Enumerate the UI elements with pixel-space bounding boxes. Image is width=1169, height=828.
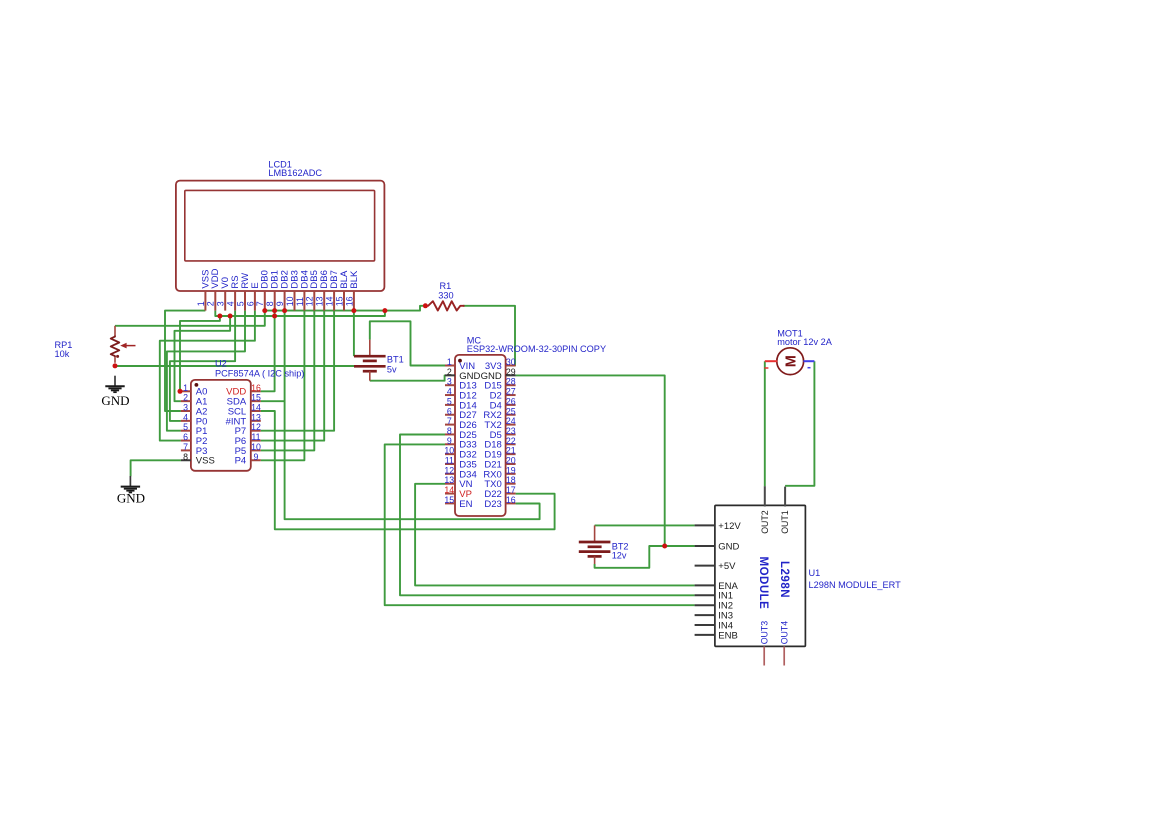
U2 pin 5 P1 stub — [181, 430, 191, 432]
MC pin 25 RX2 stub — [506, 414, 516, 416]
wire MC GND pin29 to GND net junction — [516, 375, 665, 546]
LCD1 pin 5 RW stub — [244, 291, 246, 311]
U2 pin 1 A0 stub — [181, 390, 191, 392]
svg-text:15: 15 — [444, 495, 454, 505]
svg-text:15: 15 — [251, 393, 261, 403]
svg-text:25: 25 — [506, 406, 516, 416]
wire U2 VSS to GND2 — [131, 460, 181, 476]
battery BT2 12v — [579, 525, 611, 564]
MC pin 29 GND stub — [506, 374, 516, 376]
U1 pin OUT2 stub — [764, 486, 766, 506]
junction RP1 bottom at (115.0,365.9) — [113, 363, 118, 368]
MC pin 3 D13 stub — [445, 384, 455, 386]
svg-text:1: 1 — [447, 357, 452, 367]
wire U2 P7 to LCD pin14 DB7 — [261, 311, 334, 431]
svg-text:11: 11 — [295, 297, 305, 306]
svg-text:U2: U2 — [215, 359, 227, 369]
svg-text:10: 10 — [285, 296, 295, 306]
wire MOT1 left to U1 OUT2 — [764, 361, 766, 486]
svg-text:16: 16 — [251, 383, 261, 393]
wire U2 P6 to LCD pin13 DB6 — [261, 311, 324, 441]
junction bus1 LCD pin8 at (274.6,310.6) — [272, 308, 277, 313]
junction bus2 VDD riser at (274.6,316.0) — [272, 314, 277, 319]
wire RP1 bottom GND rail to BT1 minus plate — [115, 365, 354, 367]
MC pin 21 D19 stub — [506, 453, 516, 455]
LCD1 pin 13 DB6 stub — [323, 291, 325, 311]
wire MC D33 to U1 IN2 — [385, 444, 695, 605]
U1 pin +5V stub — [695, 565, 715, 567]
junction bus2 A0 tap at (219.9,316.0) — [217, 314, 222, 319]
junction GND net BT2 at (664.7,546.0) — [662, 544, 667, 549]
svg-text:OUT3: OUT3 — [760, 621, 770, 645]
wire LCD pin1 VSS to U2 A2 — [165, 311, 205, 411]
wire BT1 minus to MC GND pin2 — [370, 375, 445, 380]
potentiometer RP1 10k — [111, 326, 120, 363]
U2 pin 10 P5 stub — [251, 449, 261, 451]
svg-text:GND: GND — [117, 491, 145, 506]
U2 pin 8 VSS stub — [181, 459, 191, 461]
LCD1 pin 3 V0 stub — [224, 291, 226, 311]
LCD1 pin 2 VDD stub — [214, 291, 216, 311]
svg-text:MODULE: MODULE — [757, 557, 769, 610]
U1 pin IN1 stub — [695, 594, 715, 596]
svg-text:M: M — [784, 355, 800, 367]
U1 pin +12V stub — [695, 524, 715, 526]
svg-text:8: 8 — [265, 301, 275, 306]
svg-text:5: 5 — [183, 422, 188, 432]
svg-text:9: 9 — [254, 452, 259, 462]
svg-text:16: 16 — [506, 495, 516, 505]
MC pin 24 TX2 stub — [506, 424, 516, 426]
junction bus1 bus2 riser at (384.9,310.6) — [382, 308, 387, 313]
LCD1 pin 10 DB3 stub — [294, 291, 296, 311]
MC pin 30 3V3 stub — [506, 365, 516, 367]
U1 pin IN4 stub — [695, 624, 715, 626]
LCD1 pin 15 BLA stub — [343, 291, 345, 311]
wire BT2 minus to U1 GND — [595, 546, 695, 568]
svg-text:5: 5 — [447, 396, 452, 406]
U2 pin 3 A2 stub — [181, 410, 191, 412]
svg-text:11: 11 — [445, 456, 454, 466]
U2 pin 9 P4 stub — [251, 459, 261, 461]
svg-text:3: 3 — [216, 301, 226, 306]
svg-text:OUT2: OUT2 — [760, 510, 770, 534]
svg-text:VSS: VSS — [196, 456, 215, 467]
junction bus2 A1 tap at (230.1,316.0) — [228, 314, 233, 319]
MC pin 4 D12 stub — [445, 394, 455, 396]
svg-text:6: 6 — [183, 432, 188, 442]
MC pin 5 D14 stub — [445, 404, 455, 406]
U1 pin OUT3 stub — [763, 646, 765, 665]
svg-text:330: 330 — [438, 291, 453, 301]
svg-text:OUT1: OUT1 — [780, 510, 790, 534]
svg-text:U1: U1 — [809, 568, 821, 578]
LCD1 pin 16 BLK stub — [353, 291, 355, 311]
svg-text:2: 2 — [206, 301, 216, 306]
U1 pin ENA stub — [695, 584, 715, 586]
svg-text:14: 14 — [444, 485, 454, 495]
svg-text:2: 2 — [447, 367, 452, 377]
svg-text:5: 5 — [235, 301, 245, 306]
RP1 wiper arrow — [120, 343, 135, 349]
svg-text:PCF8574A ( I2C ship): PCF8574A ( I2C ship) — [215, 369, 304, 379]
U2 pin 6 P2 stub — [181, 440, 191, 442]
svg-text:13: 13 — [315, 296, 325, 306]
MC pin 20 D21 stub — [506, 463, 516, 465]
U1 pin IN3 stub — [695, 614, 715, 616]
svg-text:+5V: +5V — [718, 561, 736, 572]
wire R1 to MC 3V3 pin30 — [463, 306, 515, 366]
svg-text:P4: P4 — [235, 456, 247, 467]
wire bus2 tap to U2 A0 — [180, 316, 220, 391]
MC pin 22 D18 stub — [506, 443, 516, 445]
svg-text:4: 4 — [183, 412, 188, 422]
wire U2 P5 to LCD pin12 DB5 — [261, 311, 315, 451]
U1 pin IN2 stub — [695, 604, 715, 606]
svg-text:OUT4: OUT4 — [780, 621, 790, 645]
MOT1 right terminal — [803, 361, 814, 368]
svg-text:1: 1 — [196, 301, 206, 306]
svg-text:BLK: BLK — [349, 270, 360, 289]
svg-text:3: 3 — [447, 377, 452, 387]
MC pin 1 VIN stub — [445, 365, 455, 367]
U2 pin 2 A1 stub — [181, 400, 191, 402]
wire U2 SCL to MC D22 — [261, 411, 555, 529]
svg-text:14: 14 — [251, 403, 261, 413]
svg-text:27: 27 — [506, 387, 516, 397]
MC pin 11 D35 stub — [445, 463, 455, 465]
svg-text:24: 24 — [506, 416, 516, 426]
U2 pin 14 SCL stub — [251, 410, 261, 412]
svg-text:L298N: L298N — [778, 561, 790, 598]
LCD display LCD1 LMB162ADC body — [176, 181, 385, 291]
ground symbol GND1 below RP1 — [105, 376, 124, 393]
svg-text:EN: EN — [459, 499, 472, 510]
wire MOT1 right to U1 OUT1 — [785, 361, 814, 486]
wire LCD pin5 RW to U2 P1 — [167, 311, 245, 431]
wire node A0 stub link — [179, 390, 182, 392]
svg-text:15: 15 — [334, 296, 344, 306]
MC pin 7 D26 stub — [445, 424, 455, 426]
svg-text:ENB: ENB — [718, 630, 738, 641]
MC pin 14 VP stub — [445, 493, 455, 495]
U1 pin ENB stub — [695, 634, 715, 636]
junction U2 A0 pin at (180.0,391.3) — [178, 389, 183, 394]
junction bus1 LCD pin9 at (284.6,310.6) — [282, 308, 287, 313]
svg-text:20: 20 — [506, 456, 516, 466]
MC pin 12 D34 stub — [445, 473, 455, 475]
LCD1 pin 14 DB7 stub — [333, 291, 335, 311]
wire LCD pin16 BLK drop to BT1 plus plate — [353, 311, 355, 357]
svg-text:1: 1 — [183, 383, 188, 393]
MC pin 23 D5 stub — [506, 433, 516, 435]
svg-text:R1: R1 — [440, 281, 452, 291]
svg-text:+12V: +12V — [718, 521, 741, 532]
LCD1 pin 1 VSS stub — [204, 291, 206, 311]
MC pin 19 RX0 stub — [506, 473, 516, 475]
svg-text:3: 3 — [183, 403, 188, 413]
U2 pin 7 P3 stub — [181, 449, 191, 451]
svg-text:6: 6 — [245, 301, 255, 306]
MC pin 2 GND stub — [445, 374, 455, 376]
MC pin 17 D22 stub — [506, 493, 516, 495]
MC pin 15 EN stub — [445, 502, 455, 504]
svg-text:13: 13 — [444, 475, 454, 485]
MC pin 10 D32 stub — [445, 453, 455, 455]
U1 pin GND stub — [695, 545, 715, 547]
svg-text:23: 23 — [506, 426, 516, 436]
junction bus1 LCD pin16 at (353.9,310.6) — [351, 308, 356, 313]
U2 pin 15 SDA stub — [251, 400, 261, 402]
svg-text:14: 14 — [325, 296, 335, 306]
U1 pin OUT4 stub — [783, 646, 785, 665]
wire LCD pin4 RS to U2 P0 — [170, 311, 235, 421]
U2 pin 11 P6 stub — [251, 440, 261, 442]
battery BT1 5v — [354, 340, 386, 381]
svg-text:BT1: BT1 — [387, 355, 404, 365]
U2 pin 13 #INT stub — [251, 420, 261, 422]
svg-text:12: 12 — [444, 465, 454, 475]
IC MC ESP32-WROOM-32-30PIN body — [455, 355, 506, 516]
LCD1 pin 8 DB1 stub — [274, 291, 276, 311]
svg-text:D23: D23 — [484, 499, 501, 510]
svg-text:16: 16 — [344, 296, 354, 306]
svg-text:9: 9 — [275, 301, 285, 306]
junction bus1 LCD pin7 at (264.8,310.6) — [262, 308, 267, 313]
wire LCD pin2 VDD bus2 to bus1 riser — [215, 311, 385, 316]
svg-text:9: 9 — [447, 436, 452, 446]
svg-text:10k: 10k — [55, 349, 70, 359]
svg-text:12v: 12v — [612, 550, 627, 560]
MC pin 28 D15 stub — [506, 384, 516, 386]
svg-text:18: 18 — [506, 475, 516, 485]
U1 pin OUT1 stub — [784, 487, 786, 507]
wire U1 +12V to BT2 plus — [595, 524, 695, 526]
svg-text:10: 10 — [444, 446, 454, 456]
resistor R1 330 — [425, 301, 464, 310]
LCD1 pin 4 RS stub — [234, 291, 236, 311]
svg-text:21: 21 — [506, 446, 516, 456]
MC pin 16 D23 stub — [506, 502, 516, 504]
MC pin 26 D4 stub — [506, 404, 516, 406]
wire LCD pin6 E to U2 P2 — [160, 311, 255, 441]
MOT1 left terminal — [764, 361, 777, 368]
wire U2 P4 to LCD pin11 DB4 — [261, 311, 305, 461]
MC pin 6 D27 stub — [445, 414, 455, 416]
LCD1 pin 7 DB0 stub — [264, 291, 266, 311]
svg-text:L298N MODULE_ERT: L298N MODULE_ERT — [809, 580, 902, 590]
svg-text:LMB162ADC: LMB162ADC — [268, 168, 322, 178]
wire MC VN to U1 ENA — [415, 484, 694, 586]
LCD1 pin 6 E stub — [254, 291, 256, 311]
motor MOT1 symbol — [777, 348, 804, 375]
wire BT1 plus to MC VIN — [370, 321, 445, 365]
svg-text:5v: 5v — [387, 364, 397, 374]
wire LCD pin9 / SDA to MC D23 — [285, 311, 540, 520]
svg-text:22: 22 — [506, 436, 516, 446]
U2 pin 4 P0 stub — [181, 420, 191, 422]
wire LCD pin7 to RP1 top — [115, 311, 265, 326]
svg-text:26: 26 — [506, 396, 516, 406]
ground symbol GND2 below U2 VSS — [121, 476, 140, 493]
svg-text:ESP32-WROOM-32-30PIN COPY: ESP32-WROOM-32-30PIN COPY — [467, 344, 606, 354]
svg-text:13: 13 — [251, 412, 261, 422]
svg-text:19: 19 — [506, 465, 516, 475]
svg-text:GND: GND — [718, 541, 739, 552]
svg-text:17: 17 — [506, 485, 516, 495]
svg-text:7: 7 — [255, 301, 265, 306]
U2 pin 12 P7 stub — [251, 430, 261, 432]
svg-text:6: 6 — [447, 406, 452, 416]
svg-text:28: 28 — [506, 377, 516, 387]
svg-text:10: 10 — [251, 442, 261, 452]
wire LCD pin8 to U2 VDD — [261, 311, 275, 392]
svg-text:11: 11 — [251, 432, 260, 442]
svg-text:8: 8 — [183, 452, 188, 462]
MC pin 27 D2 stub — [506, 394, 516, 396]
svg-text:8: 8 — [447, 426, 452, 436]
svg-text:GND: GND — [101, 393, 129, 408]
U2 pin 16 VDD stub — [251, 390, 261, 392]
svg-text:12: 12 — [251, 422, 261, 432]
junction R1 left terminal at (425.4,305.8) — [423, 303, 428, 308]
wire MC D25 to U1 IN1 — [400, 435, 695, 596]
wire U2 SDA row — [261, 400, 285, 402]
svg-text:12: 12 — [305, 296, 315, 306]
wire bus2 tap to U2 A1 — [175, 316, 231, 401]
LCD1 pin 12 DB5 stub — [313, 291, 315, 311]
svg-text:4: 4 — [226, 301, 236, 306]
svg-text:2: 2 — [183, 393, 188, 403]
LCD1 pin 11 DB4 stub — [303, 291, 305, 311]
wire bus1 LCD pin7 to R1 — [265, 306, 426, 311]
MC pin 9 D33 stub — [445, 443, 455, 445]
svg-text:29: 29 — [506, 367, 516, 377]
svg-text:motor 12v 2A: motor 12v 2A — [777, 337, 833, 347]
svg-text:4: 4 — [447, 387, 452, 397]
MC pin 13 VN stub — [445, 483, 455, 485]
MC pin 18 TX0 stub — [506, 483, 516, 485]
MC pin 8 D25 stub — [445, 433, 455, 435]
svg-text:7: 7 — [183, 442, 188, 452]
module U1 L298N body — [715, 505, 806, 646]
LCD1 pin 9 DB2 stub — [284, 291, 286, 311]
svg-text:30: 30 — [506, 357, 516, 367]
svg-text:7: 7 — [447, 416, 452, 426]
IC U2 PCF8574A body — [191, 380, 251, 471]
